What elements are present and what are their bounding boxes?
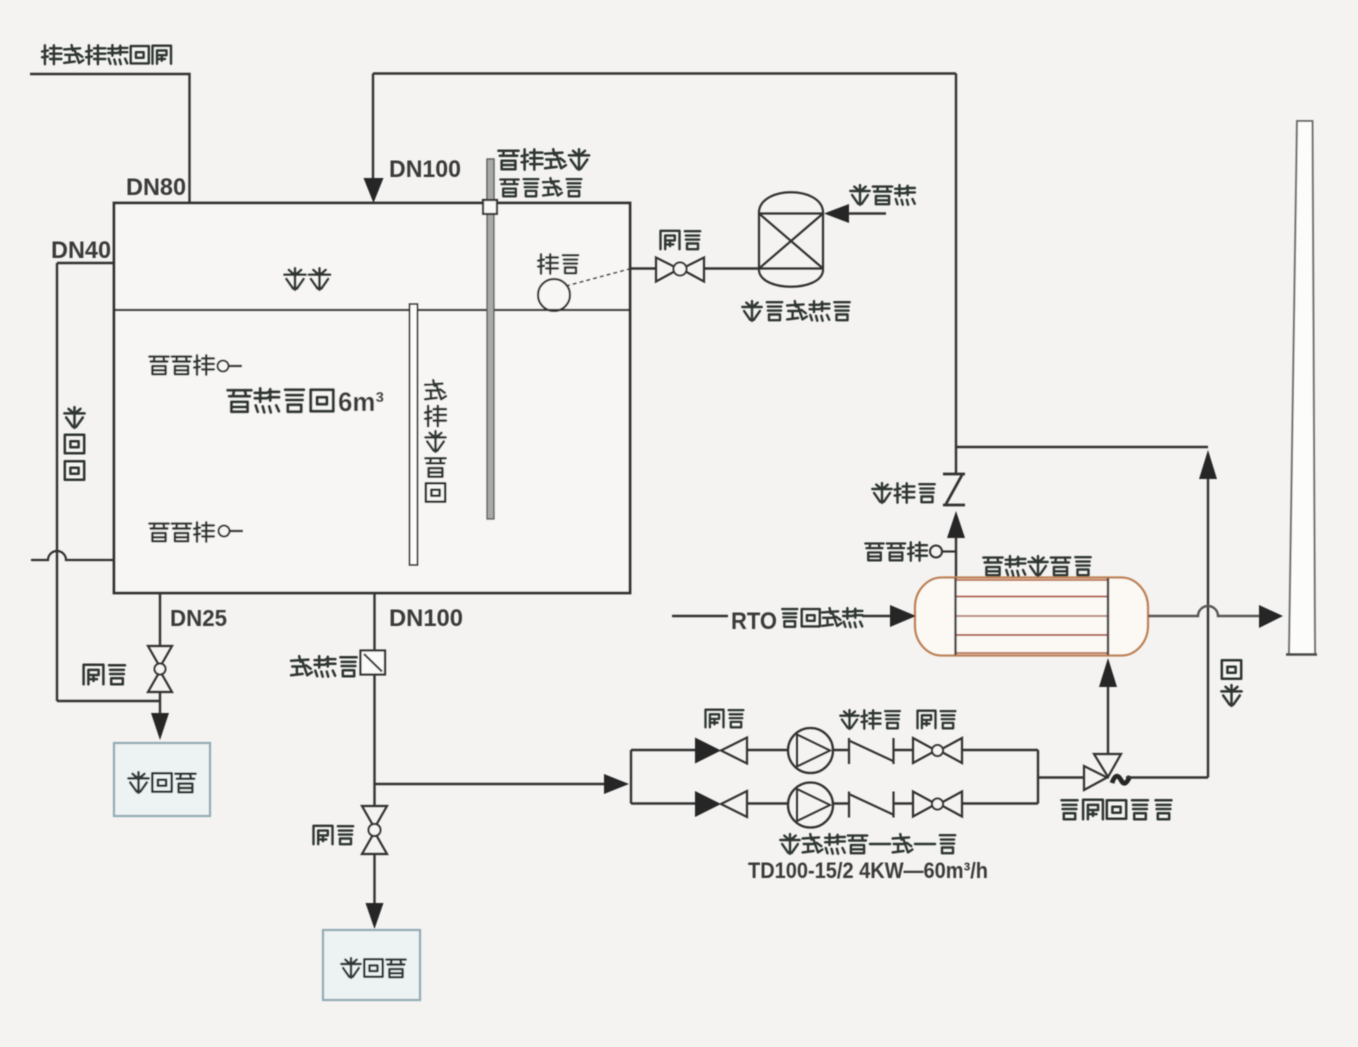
wire: safety valve to bypass riser — [1126, 776, 1208, 778]
wire: left stub crossing with jump — [31, 551, 114, 560]
label: pang-tong (bypass, vertical) — [1221, 660, 1241, 706]
wire: ball valve V1 to softener — [704, 267, 759, 269]
water softener vessel — [759, 192, 823, 287]
chimney base line — [1286, 653, 1317, 656]
svg-text:DN80: DN80 — [126, 174, 186, 201]
label: pai-wu-jing 2 — [341, 958, 405, 978]
ball valve V6 (DN25 drain, vertical) — [148, 646, 172, 692]
label: DN80 — [126, 174, 186, 201]
wire: riser into exchanger bottom with arrow — [1099, 658, 1117, 755]
RTO flue gas inlet line and arrow — [672, 605, 916, 627]
wire: below valve to junction — [159, 692, 161, 714]
wire: equipment return water pipe DN80 — [30, 74, 190, 203]
softener X cross — [759, 214, 823, 269]
ball valve V7 (blowdown, vertical) — [362, 806, 387, 854]
svg-text:DN40: DN40 — [51, 237, 111, 264]
svg-text:DN25: DN25 — [170, 605, 227, 631]
tank: hot water storage tank 6m3 — [114, 203, 630, 593]
ball valve V5 (bottom branch with ball) — [913, 792, 962, 817]
label: DN40 — [51, 237, 111, 264]
label: guo-lv-qi (strainer) — [291, 656, 357, 677]
wire: DN25 drain from tank — [159, 593, 161, 646]
wire: DN100 drop into tank with arrow — [364, 74, 384, 204]
thermocouple TE1 label and probe — [149, 355, 242, 374]
drop-in level sensor rod — [487, 159, 494, 519]
wire: bypass header — [956, 446, 1208, 448]
svg-text:DN100: DN100 — [389, 156, 461, 183]
label: zi-dong-ruan-shui-qi (automatic softener) — [742, 301, 849, 321]
outfall box2 pai-wu-jing — [323, 930, 420, 1000]
label: pai-wu-jing 1 — [128, 772, 195, 793]
label: qiu-fa (ball valve) on fill line — [661, 231, 701, 249]
chimney stack — [1289, 121, 1315, 654]
label: DN100 (top) — [389, 156, 461, 183]
drain arrow into outfall box1 — [151, 713, 169, 740]
outfall box1 pai-wu-jing — [114, 743, 210, 816]
ball valve V2 (top branch, left-solid) — [695, 738, 747, 764]
float valve arm (dashed) — [566, 269, 631, 287]
label: fu-fa (float valve) — [538, 254, 578, 273]
tap water inlet arrow — [824, 204, 886, 223]
label: tou-fang-shi-ye-wei-chuan-gan-qi line1 — [498, 149, 589, 170]
label: TD100-15/2 4KW-60m3/h — [748, 858, 988, 883]
wire: flue outlet with jump and arrow — [1148, 605, 1283, 628]
thermocouple TE2 label and probe — [149, 522, 243, 541]
wire: pump branch left vertical — [630, 750, 632, 804]
strainer guo-lv-qi (square with diagonal) — [361, 651, 386, 675]
wire: pump header to safety valve — [1038, 776, 1084, 778]
label: re-shui-huan-re-qi (hot water heat exchanger) — [983, 556, 1090, 576]
label: sensor line2 — [500, 178, 581, 196]
wire: DN100 drain from tank — [373, 593, 375, 651]
heat exchanger vessel shell — [915, 578, 1148, 656]
float valve ball — [538, 279, 570, 311]
flow arrow up into check valve — [947, 511, 965, 577]
wire: top branch segments — [631, 749, 1038, 751]
pump P1 (circle with triangle) — [788, 728, 833, 773]
label: re-shui-chu-xiang (hot water tank) 6m3 — [228, 387, 384, 417]
heat exchanger tube sheets — [956, 578, 1109, 655]
sight level gauge tube — [410, 304, 418, 565]
label: qiu-fa blowdown — [314, 826, 354, 844]
wire: DN40 overflow stub and riser — [57, 263, 160, 701]
svg-text:DN100: DN100 — [389, 605, 463, 632]
heat exchanger tube lines — [956, 580, 1109, 653]
wire: pump suction feed with arrow — [375, 774, 630, 794]
ball valve V3 (top branch with ball) — [913, 738, 962, 763]
label: gao-ya-an-quan-fa (hp safety valve) — [1062, 800, 1172, 819]
label: DN25 — [170, 605, 227, 631]
svg-text:TD100-15/2 4KW—60m³/h: TD100-15/2 4KW—60m³/h — [748, 858, 988, 883]
label: qiu-fa top branch — [706, 710, 744, 728]
label: yi-liu-guan (overflow pipe, vertical) — [64, 407, 84, 480]
check valve Z symbol zhi-hui-fa — [943, 474, 965, 505]
label: DN100 (bottom) — [389, 605, 463, 632]
label: ye-mian (liquid surface) — [284, 268, 330, 290]
wire: tank to ball valve V1 — [630, 267, 656, 269]
softener upper chord — [759, 212, 823, 214]
check valve CV2 (bottom branch) — [849, 792, 894, 818]
wire: top return header from heat exchanger — [373, 74, 956, 475]
softener lower chord — [759, 267, 823, 269]
wire: valve to outfall box2 with arrow — [366, 854, 384, 929]
label: she-bei-hui-shui-guan-dao (equipment return pipe) — [42, 45, 171, 64]
label: zi-lai-shui (tap water) — [850, 185, 915, 205]
safety valve side triangle — [1084, 766, 1107, 790]
svg-text:6m³: 6m³ — [338, 387, 384, 417]
label: qiu-fa top right — [918, 711, 956, 729]
wire: bypass riser with arrow — [1199, 450, 1217, 778]
ball valve V4 (bottom branch, left-solid) — [695, 791, 747, 817]
label: ke-shi-ye-wei-ji (visible level gauge, vertical) — [425, 380, 446, 502]
ball valve V1 (fill line) — [656, 258, 704, 282]
thermocouple TE3 label and probe — [865, 542, 956, 560]
wire: pump branch right vertical — [1037, 750, 1039, 804]
label: zhi-hui-fa (check valve) — [872, 483, 934, 503]
wire: strainer down through tee to valve — [373, 675, 375, 807]
pump P2 (circle with triangle) — [788, 783, 833, 828]
wire: bottom branch segments — [631, 802, 1038, 804]
tank liquid surface line — [114, 309, 630, 311]
safety valve down triangle — [1094, 754, 1121, 777]
label: zhi-hui-fa pump branch — [840, 710, 900, 729]
sensor mounting square on tank top — [483, 200, 497, 214]
label: qiu-fa DN25 — [84, 665, 125, 684]
check valve CV1 (top branch) — [849, 738, 894, 764]
label: xun-huan-shui-beng yi-bei-yi-yong (circulating pumps) — [780, 834, 955, 854]
safety valve squiggle — [1112, 776, 1130, 783]
label: RTO gao-wen-yan-qi (RTO hot flue gas) — [731, 608, 862, 635]
svg-text:RTO: RTO — [731, 608, 777, 635]
